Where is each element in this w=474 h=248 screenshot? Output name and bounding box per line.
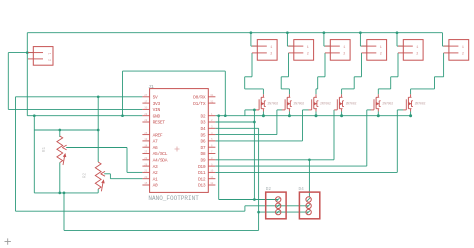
svg-text:D3: D3	[200, 120, 205, 126]
svg-text:19: 19	[144, 138, 148, 141]
svg-text:D12: D12	[198, 176, 206, 182]
svg-text:2N7002: 2N7002	[382, 101, 393, 105]
svg-text:29: 29	[144, 113, 148, 116]
svg-text:R1: R1	[42, 147, 47, 153]
svg-text:2N7002: 2N7002	[267, 101, 278, 105]
svg-text:A1: A1	[153, 176, 158, 182]
svg-text:1: 1	[46, 53, 50, 55]
svg-text:11: 11	[210, 176, 214, 179]
svg-text:A5/SCL: A5/SCL	[153, 151, 168, 157]
svg-text:10: 10	[210, 170, 214, 173]
svg-text:D4: D4	[200, 126, 205, 132]
svg-text:D5: D5	[200, 132, 205, 138]
svg-text:D2: D2	[266, 187, 272, 192]
svg-text:D6: D6	[200, 139, 205, 145]
svg-text:32: 32	[210, 100, 214, 103]
svg-text:2: 2	[416, 53, 418, 57]
svg-text:1: 1	[416, 46, 418, 50]
svg-text:5V: 5V	[153, 95, 158, 101]
svg-text:2: 2	[270, 53, 272, 57]
svg-text:D4: D4	[299, 187, 305, 192]
svg-text:D13: D13	[198, 183, 206, 189]
svg-text:26: 26	[144, 163, 148, 166]
svg-text:2: 2	[462, 53, 464, 57]
svg-text:2N7002: 2N7002	[293, 101, 304, 105]
svg-text:2: 2	[46, 59, 50, 61]
svg-text:27: 27	[144, 94, 148, 97]
svg-text:23: 23	[144, 151, 148, 154]
svg-text:2: 2	[380, 53, 382, 57]
svg-text:VIN: VIN	[153, 107, 161, 113]
svg-text:A6: A6	[153, 145, 158, 151]
svg-text:15: 15	[144, 182, 148, 185]
svg-text:22: 22	[144, 157, 148, 160]
svg-text:D0/RX: D0/RX	[193, 95, 206, 101]
svg-text:A4/SDA: A4/SDA	[153, 158, 168, 164]
svg-text:31: 31	[210, 94, 214, 97]
svg-text:D1/TX: D1/TX	[193, 101, 206, 107]
svg-text:D10: D10	[198, 164, 206, 170]
svg-text:D9: D9	[200, 158, 205, 164]
svg-text:1: 1	[343, 46, 345, 50]
svg-text:2N7002: 2N7002	[320, 101, 331, 105]
svg-text:21: 21	[144, 170, 148, 173]
svg-text:2: 2	[307, 53, 309, 57]
svg-text:A7: A7	[153, 139, 158, 145]
svg-text:18: 18	[144, 144, 148, 147]
svg-text:25: 25	[144, 132, 148, 135]
svg-text:A0: A0	[153, 183, 158, 189]
svg-text:1: 1	[307, 46, 309, 50]
svg-text:R2: R2	[83, 173, 88, 179]
svg-text:J1: J1	[148, 84, 154, 90]
svg-text:AREF: AREF	[153, 132, 163, 138]
svg-text:12: 12	[210, 182, 214, 185]
svg-text:17: 17	[144, 100, 148, 103]
svg-text:A3: A3	[153, 164, 158, 170]
svg-text:2N7002: 2N7002	[346, 101, 357, 105]
svg-text:GND: GND	[153, 113, 161, 119]
svg-text:30: 30	[144, 107, 148, 110]
svg-text:2: 2	[343, 53, 345, 57]
svg-text:20: 20	[144, 176, 148, 179]
svg-text:1: 1	[462, 46, 464, 50]
svg-text:2N7002: 2N7002	[415, 101, 426, 105]
svg-text:D2: D2	[200, 113, 205, 119]
svg-text:A2: A2	[153, 170, 158, 176]
svg-text:RESET: RESET	[153, 120, 166, 126]
svg-text:D8: D8	[200, 151, 205, 157]
svg-text:1: 1	[270, 46, 272, 50]
svg-text:28: 28	[144, 119, 148, 122]
svg-text:3V3: 3V3	[153, 101, 161, 107]
svg-text:D7: D7	[200, 145, 205, 151]
svg-text:1: 1	[380, 46, 382, 50]
svg-text:NANO_FOOTPRINT: NANO_FOOTPRINT	[148, 195, 199, 202]
svg-text:D11: D11	[198, 170, 206, 176]
